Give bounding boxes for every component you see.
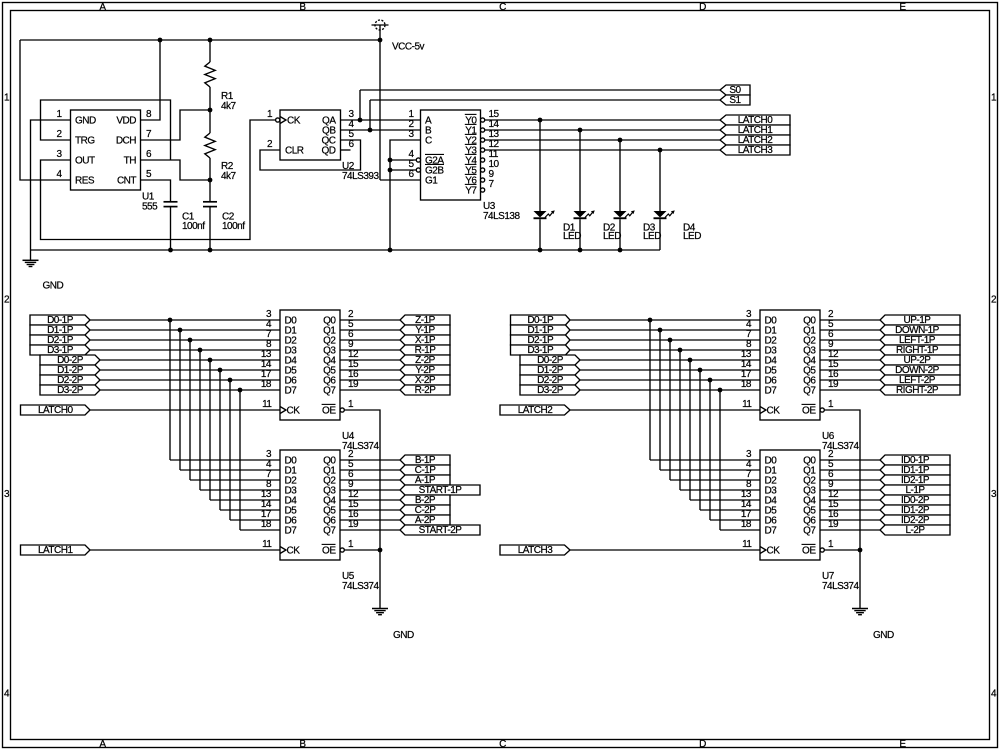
junction top rail / R1 bbox=[208, 38, 213, 43]
wire LATCH3 to U7 CK bbox=[570, 549, 760, 551]
svg-text:4: 4 bbox=[991, 689, 997, 700]
junction rail D2 bbox=[578, 248, 583, 253]
svg-text:D3-2P: D3-2P bbox=[537, 385, 564, 396]
svg-text:6: 6 bbox=[408, 169, 414, 180]
wire U7 Q1 to ID1-1P bbox=[820, 469, 880, 471]
junction D2-2P branch bbox=[228, 378, 233, 383]
svg-text:S1: S1 bbox=[729, 95, 741, 106]
junction QB S1 bbox=[368, 128, 373, 133]
svg-text:C: C bbox=[425, 136, 432, 147]
node START-1P flag bbox=[400, 485, 480, 495]
U3 Y3 bubble bbox=[481, 148, 485, 152]
svg-text:RES: RES bbox=[75, 176, 95, 187]
junction G2B bbox=[388, 168, 393, 173]
node X-1P flag bbox=[400, 335, 450, 345]
svg-text:CNT: CNT bbox=[117, 176, 136, 187]
svg-text:QD: QD bbox=[322, 146, 336, 157]
wire QB to U3 B bbox=[341, 129, 421, 131]
svg-text:LATCH1: LATCH1 bbox=[38, 545, 74, 556]
junction D3-2P branch bbox=[718, 388, 723, 393]
svg-text:19: 19 bbox=[828, 519, 839, 530]
node ID2-2P flag bbox=[880, 515, 950, 525]
svg-text:11: 11 bbox=[742, 539, 752, 550]
svg-text:GND: GND bbox=[873, 630, 894, 641]
junction U7 OE bbox=[858, 548, 863, 553]
svg-text:19: 19 bbox=[348, 379, 359, 390]
node A-2P flag bbox=[400, 515, 450, 525]
junction D0-2P branch bbox=[688, 358, 693, 363]
node D0-1P flag bbox=[30, 315, 90, 325]
junction top rail / VCC bbox=[378, 38, 383, 43]
node D0-2P flag bbox=[520, 355, 580, 365]
node LATCH2 flag (top) bbox=[720, 135, 790, 145]
svg-text:D7: D7 bbox=[285, 526, 298, 537]
wire U4 Q7 to R-2P bbox=[340, 389, 400, 391]
svg-text:LED: LED bbox=[683, 231, 701, 242]
wire U6 Q4 to UP-2P bbox=[820, 359, 880, 361]
svg-text:LATCH3: LATCH3 bbox=[518, 545, 554, 556]
U3 G2A bubble bbox=[416, 158, 420, 162]
junction U5 OE bbox=[378, 548, 383, 553]
U3 Y1 bubble bbox=[481, 128, 485, 132]
svg-text:C: C bbox=[499, 2, 506, 13]
wire D1-2P drop bbox=[219, 370, 221, 510]
wire U4 Q6 to X-2P bbox=[340, 379, 400, 381]
wire D2 to ground rail bbox=[579, 219, 581, 250]
wire D3-1P drop bbox=[679, 350, 681, 490]
svg-text:START-2P: START-2P bbox=[419, 525, 463, 536]
node R-2P flag bbox=[400, 385, 450, 395]
wire Y0 to LATCH0 bbox=[485, 119, 720, 121]
svg-text:Q7: Q7 bbox=[323, 526, 336, 537]
node UP-1P flag bbox=[880, 315, 960, 325]
node D1-2P flag bbox=[520, 365, 580, 375]
wire S1 net bbox=[370, 99, 720, 101]
wire RES loop from top rail bbox=[20, 40, 71, 180]
wire D1 to ground rail bbox=[539, 219, 541, 250]
svg-text:18: 18 bbox=[741, 519, 752, 530]
capacitor C1 bbox=[164, 201, 178, 203]
svg-text:G1: G1 bbox=[425, 176, 438, 187]
wire D1-2P bus bbox=[100, 369, 280, 371]
wire D3-2P bus bbox=[580, 389, 760, 391]
svg-text:18: 18 bbox=[741, 379, 752, 390]
node LEFT-2P flag bbox=[880, 375, 960, 385]
svg-text:LED: LED bbox=[563, 231, 581, 242]
node RIGHT-2P flag bbox=[880, 385, 960, 395]
wire U5 Q3 to START-1P bbox=[340, 489, 400, 491]
VCC-5v power symbol bbox=[375, 20, 385, 30]
wire Y3 to D4 bbox=[659, 150, 661, 211]
wire D3 to ground rail bbox=[619, 219, 621, 250]
junction Y0 D1 bbox=[538, 118, 543, 123]
node LATCH3 flag bbox=[500, 545, 570, 555]
op-amp U1 555 body bbox=[71, 110, 141, 190]
wire D0-1P drop bbox=[649, 320, 651, 460]
svg-text:Y7: Y7 bbox=[465, 186, 477, 197]
wire D3-1P bus bbox=[570, 349, 760, 351]
wire U5 Q0 to B-1P bbox=[340, 459, 400, 461]
junction D0-1P branch bbox=[168, 318, 173, 323]
svg-text:74LS393: 74LS393 bbox=[342, 171, 379, 182]
svg-text:4k7: 4k7 bbox=[221, 171, 237, 182]
wire LATCH2 to U6 CK bbox=[570, 409, 760, 411]
wire QA to U3 A bbox=[341, 119, 421, 121]
wire D3-2P to second latch bbox=[240, 529, 280, 531]
junction rail D3 bbox=[618, 248, 623, 253]
svg-text:LATCH2: LATCH2 bbox=[518, 405, 554, 416]
node D3-2P flag bbox=[520, 385, 580, 395]
node Z-2P flag bbox=[400, 355, 450, 365]
ground symbol center-right bbox=[852, 608, 868, 610]
wire OE net to ground (left) bbox=[379, 550, 381, 609]
U2 CK bubble bbox=[276, 118, 280, 122]
resistor R2 bbox=[209, 110, 211, 133]
wire D0-2P to second latch bbox=[690, 499, 760, 501]
wire U4 Q3 to R-1P bbox=[340, 349, 400, 351]
wire U4 Q4 to Z-2P bbox=[340, 359, 400, 361]
wire D3-2P bus bbox=[100, 389, 280, 391]
U6 CK wedge bbox=[760, 407, 766, 414]
node D0-1P flag bbox=[511, 315, 571, 325]
diode D1 LED bbox=[534, 211, 547, 218]
svg-text:A: A bbox=[99, 2, 106, 13]
svg-text:5: 5 bbox=[146, 169, 152, 180]
svg-text:B: B bbox=[299, 739, 306, 750]
wire D1-1P to second latch bbox=[180, 469, 280, 471]
svg-text:OE: OE bbox=[802, 406, 816, 417]
wire D2-2P drop bbox=[709, 380, 711, 520]
wire Y0 to D1 bbox=[539, 120, 541, 211]
junction D1-2P branch bbox=[698, 368, 703, 373]
junction QA S0 bbox=[358, 118, 363, 123]
junction D3-1P branch bbox=[678, 348, 683, 353]
wire VCC top rail bbox=[20, 39, 380, 41]
junction rail D1 bbox=[538, 248, 543, 253]
wire QB riser to S1 bbox=[369, 100, 371, 130]
svg-text:C: C bbox=[499, 739, 506, 750]
junction D0-1P branch bbox=[648, 318, 653, 323]
svg-text:74LS374: 74LS374 bbox=[342, 581, 379, 592]
svg-text:CK: CK bbox=[287, 546, 301, 557]
svg-text:Q7: Q7 bbox=[323, 386, 336, 397]
wire U6 Q2 to LEFT-1P bbox=[820, 339, 880, 341]
svg-text:CK: CK bbox=[287, 406, 301, 417]
svg-text:CK: CK bbox=[767, 406, 781, 417]
junction D3-2P branch bbox=[238, 388, 243, 393]
node ID2-1P flag bbox=[880, 475, 950, 485]
wire D0-2P drop bbox=[689, 360, 691, 500]
node S0 flag bbox=[720, 85, 750, 95]
junction D3-1P branch bbox=[198, 348, 203, 353]
node Z-1P flag bbox=[400, 315, 450, 325]
wire LATCH0 to U4 CK bbox=[90, 409, 280, 411]
svg-text:2: 2 bbox=[56, 129, 62, 140]
node B-1P flag bbox=[400, 455, 450, 465]
resistor R1 bbox=[209, 40, 211, 62]
wire U6 Q0 to UP-1P bbox=[820, 319, 880, 321]
U6 OE bubble bbox=[820, 408, 824, 412]
wire GND pin to ground rail bbox=[31, 120, 71, 250]
wire U6 Q1 to DOWN-1P bbox=[820, 329, 880, 331]
junction rail C2 bbox=[208, 248, 213, 253]
junction Y1 D2 bbox=[578, 128, 583, 133]
wire U6 Q5 to DOWN-2P bbox=[820, 369, 880, 371]
U7 OE bubble bbox=[820, 548, 824, 552]
svg-text:RIGHT-2P: RIGHT-2P bbox=[896, 385, 939, 396]
diode D4 LED bbox=[654, 211, 667, 218]
svg-text:1: 1 bbox=[348, 399, 354, 410]
wire D1-1P bus bbox=[90, 329, 280, 331]
svg-text:1: 1 bbox=[991, 93, 997, 104]
svg-text:11: 11 bbox=[262, 399, 272, 410]
svg-text:D7: D7 bbox=[765, 526, 778, 537]
wire U4 Q5 to Y-2P bbox=[340, 369, 400, 371]
node D3-2P flag bbox=[40, 385, 100, 395]
wire D2-1P to second latch bbox=[670, 479, 760, 481]
svg-text:1: 1 bbox=[348, 539, 354, 550]
junction D2-1P branch bbox=[188, 338, 193, 343]
wire D0-1P bus bbox=[90, 319, 280, 321]
junction G2A bbox=[388, 158, 393, 163]
wire D3-2P drop bbox=[719, 390, 721, 530]
node DOWN-1P flag bbox=[880, 325, 960, 335]
latch U5 74LS374 body bbox=[280, 450, 340, 560]
wire CNT to C1 bbox=[141, 180, 171, 202]
svg-text:D7: D7 bbox=[285, 386, 298, 397]
wire D3-1P to second latch bbox=[680, 489, 760, 491]
wire U4 Q0 to Z-1P bbox=[340, 319, 400, 321]
wire U5 Q6 to A-2P bbox=[340, 519, 400, 521]
svg-text:OE: OE bbox=[322, 406, 336, 417]
wire D2-2P bus bbox=[100, 379, 280, 381]
node C-2P flag bbox=[400, 505, 450, 515]
node C-1P flag bbox=[400, 465, 450, 475]
wire U7 Q7 to L-2P bbox=[820, 529, 880, 531]
node S1 flag bbox=[720, 95, 750, 105]
wire VCC drop to G1 bbox=[379, 40, 381, 180]
svg-text:11: 11 bbox=[262, 539, 272, 550]
U3 Y2 bubble bbox=[481, 138, 485, 142]
U5 CK wedge bbox=[280, 547, 286, 554]
node LATCH1 flag (top) bbox=[720, 125, 790, 135]
junction Y3 D4 bbox=[658, 148, 663, 153]
svg-text:B: B bbox=[299, 2, 306, 13]
svg-text:6: 6 bbox=[349, 139, 355, 150]
junction DCH R1 R2 bbox=[208, 108, 213, 113]
wire D0-1P drop bbox=[169, 320, 171, 460]
wire U5 Q7 to START-2P bbox=[340, 529, 400, 531]
wire U4 OE to U5 OE bbox=[344, 410, 380, 550]
wire D3-1P to second latch bbox=[200, 489, 280, 491]
svg-text:E: E bbox=[899, 739, 906, 750]
wire D2-2P bus bbox=[580, 379, 760, 381]
U3 Y4 bubble bbox=[481, 158, 485, 162]
svg-text:VDD: VDD bbox=[116, 116, 136, 127]
wire D2-1P to second latch bbox=[190, 479, 280, 481]
svg-text:3: 3 bbox=[408, 129, 414, 140]
wire D2-1P bus bbox=[570, 339, 760, 341]
wire D3-1P bus bbox=[90, 349, 280, 351]
node DOWN-2P flag bbox=[880, 365, 960, 375]
node LATCH0 flag (top) bbox=[720, 115, 790, 125]
wire D0-1P to second latch bbox=[170, 459, 280, 461]
svg-text:19: 19 bbox=[348, 519, 359, 530]
svg-text:4: 4 bbox=[4, 689, 10, 700]
wire U6 Q3 to RIGHT-1P bbox=[820, 349, 880, 351]
node D2-1P flag bbox=[30, 335, 90, 345]
node LATCH1 flag bbox=[21, 545, 91, 555]
svg-text:100nf: 100nf bbox=[222, 221, 245, 232]
svg-text:OE: OE bbox=[322, 546, 336, 557]
wire U7 Q2 to ID2-1P bbox=[820, 479, 880, 481]
wire U7 Q3 to L-1P bbox=[820, 489, 880, 491]
node R-1P flag bbox=[400, 345, 450, 355]
wire D0-1P to second latch bbox=[650, 459, 760, 461]
decoder U3 74LS138 body bbox=[421, 110, 481, 200]
wire G2A to ground column bbox=[390, 159, 416, 161]
wire U7 Q4 to ID0-2P bbox=[820, 499, 880, 501]
wire QD stub bbox=[341, 149, 351, 151]
wire D0-2P bus bbox=[100, 359, 280, 361]
node START-2P flag bbox=[400, 525, 480, 535]
svg-text:D7: D7 bbox=[765, 386, 778, 397]
wire U4 Q1 to Y-1P bbox=[340, 329, 400, 331]
node X-2P flag bbox=[400, 375, 450, 385]
wire TH to R2/C2 node bbox=[141, 160, 211, 180]
svg-text:3: 3 bbox=[4, 489, 10, 500]
wire D1-1P bus bbox=[570, 329, 760, 331]
U3 Y7 bubble bbox=[481, 188, 485, 192]
junction TH R2 C2 bbox=[208, 178, 213, 183]
node D2-1P flag bbox=[511, 335, 571, 345]
svg-text:7: 7 bbox=[489, 179, 495, 190]
node ID1-1P flag bbox=[880, 465, 950, 475]
svg-text:1: 1 bbox=[828, 399, 834, 410]
svg-text:6: 6 bbox=[146, 149, 152, 160]
wire OE net to ground (right) bbox=[859, 550, 861, 609]
wire DCH to R1/R2 node bbox=[141, 110, 211, 140]
U2 CK wedge bbox=[280, 117, 286, 124]
wire U5 Q4 to B-2P bbox=[340, 499, 400, 501]
node UP-2P flag bbox=[880, 355, 960, 365]
junction D1-1P branch bbox=[658, 328, 663, 333]
node Y-2P flag bbox=[400, 365, 450, 375]
node Y-1P flag bbox=[400, 325, 450, 335]
wire U7 Q6 to ID2-2P bbox=[820, 519, 880, 521]
wire D1-1P drop bbox=[179, 330, 181, 470]
wire D0-2P to second latch bbox=[210, 499, 280, 501]
svg-text:11: 11 bbox=[742, 399, 752, 410]
svg-text:2: 2 bbox=[991, 295, 997, 306]
U3 G2B bubble bbox=[416, 168, 420, 172]
svg-text:OUT: OUT bbox=[75, 156, 95, 167]
wire C input drop to ground rail bbox=[390, 140, 421, 250]
svg-text:8: 8 bbox=[146, 109, 152, 120]
wire D2-1P drop bbox=[669, 340, 671, 480]
node ID0-2P flag bbox=[880, 495, 950, 505]
junction D0-2P branch bbox=[208, 358, 213, 363]
wire D3-2P to second latch bbox=[720, 529, 760, 531]
wire D1-1P to second latch bbox=[660, 469, 760, 471]
wire U6 Q6 to LEFT-2P bbox=[820, 379, 880, 381]
svg-text:DCH: DCH bbox=[116, 136, 136, 147]
wire TRG to TH link bbox=[41, 100, 171, 160]
wire S0 net bbox=[360, 89, 720, 91]
node D1-1P flag bbox=[30, 325, 90, 335]
svg-text:2: 2 bbox=[4, 295, 10, 306]
wire U5 Q5 to C-2P bbox=[340, 509, 400, 511]
svg-text:TH: TH bbox=[124, 156, 137, 167]
svg-text:D: D bbox=[699, 2, 706, 13]
U4 OE bubble bbox=[340, 408, 344, 412]
svg-text:4: 4 bbox=[56, 169, 62, 180]
svg-text:3: 3 bbox=[56, 149, 62, 160]
svg-text:A: A bbox=[99, 739, 106, 750]
wire D1-2P drop bbox=[699, 370, 701, 510]
diode D3 LED bbox=[614, 211, 627, 218]
svg-text:OE: OE bbox=[802, 546, 816, 557]
node D1-2P flag bbox=[40, 365, 100, 375]
node A-1P flag bbox=[400, 475, 450, 485]
wire D0-1P bus bbox=[570, 319, 760, 321]
node LEFT-1P flag bbox=[880, 335, 960, 345]
svg-text:100nf: 100nf bbox=[182, 221, 205, 232]
U4 CK wedge bbox=[280, 407, 286, 414]
svg-text:CLR: CLR bbox=[285, 146, 304, 157]
svg-text:19: 19 bbox=[828, 379, 839, 390]
svg-text:GND: GND bbox=[43, 281, 64, 292]
node D2-2P flag bbox=[520, 375, 580, 385]
node ID0-1P flag bbox=[880, 455, 950, 465]
U3 Y0 bubble bbox=[481, 118, 485, 122]
wire U7 Q5 to ID1-2P bbox=[820, 509, 880, 511]
svg-text:D: D bbox=[699, 739, 706, 750]
wire LATCH1 to U5 CK bbox=[90, 549, 280, 551]
svg-text:1: 1 bbox=[4, 93, 10, 104]
wire D3-1P drop bbox=[199, 350, 201, 490]
svg-text:1: 1 bbox=[267, 109, 273, 120]
node D3-1P flag bbox=[30, 345, 90, 355]
wire U7 Q0 to ID0-1P bbox=[820, 459, 880, 461]
capacitor C2 bbox=[209, 180, 211, 202]
svg-text:74LS138: 74LS138 bbox=[483, 211, 520, 222]
node D3-1P flag bbox=[511, 345, 571, 355]
node ID1-2P flag bbox=[880, 505, 950, 515]
node LATCH3 flag (top) bbox=[720, 145, 790, 155]
wire D1-2P to second latch bbox=[700, 509, 760, 511]
node LATCH2 flag bbox=[500, 405, 570, 415]
wire OUT to U2 CK bbox=[41, 120, 276, 240]
svg-text:CK: CK bbox=[767, 546, 781, 557]
svg-text:GND: GND bbox=[75, 116, 96, 127]
svg-text:TRG: TRG bbox=[75, 136, 95, 147]
svg-text:LATCH3: LATCH3 bbox=[738, 145, 774, 156]
node D2-2P flag bbox=[40, 375, 100, 385]
junction rail U3 enable bbox=[388, 248, 393, 253]
wire D1-2P bus bbox=[580, 369, 760, 371]
junction top rail / VDD bbox=[158, 38, 163, 43]
wire G2B to ground column bbox=[390, 169, 416, 171]
junction rail C1 bbox=[168, 248, 173, 253]
wire D0-2P bus bbox=[580, 359, 760, 361]
wire U6 OE to U7 OE bbox=[824, 410, 860, 550]
node B-2P flag bbox=[400, 495, 450, 505]
svg-text:74LS374: 74LS374 bbox=[822, 581, 859, 592]
svg-text:1: 1 bbox=[828, 539, 834, 550]
wire D2-1P drop bbox=[189, 340, 191, 480]
wire D1-2P to second latch bbox=[220, 509, 280, 511]
